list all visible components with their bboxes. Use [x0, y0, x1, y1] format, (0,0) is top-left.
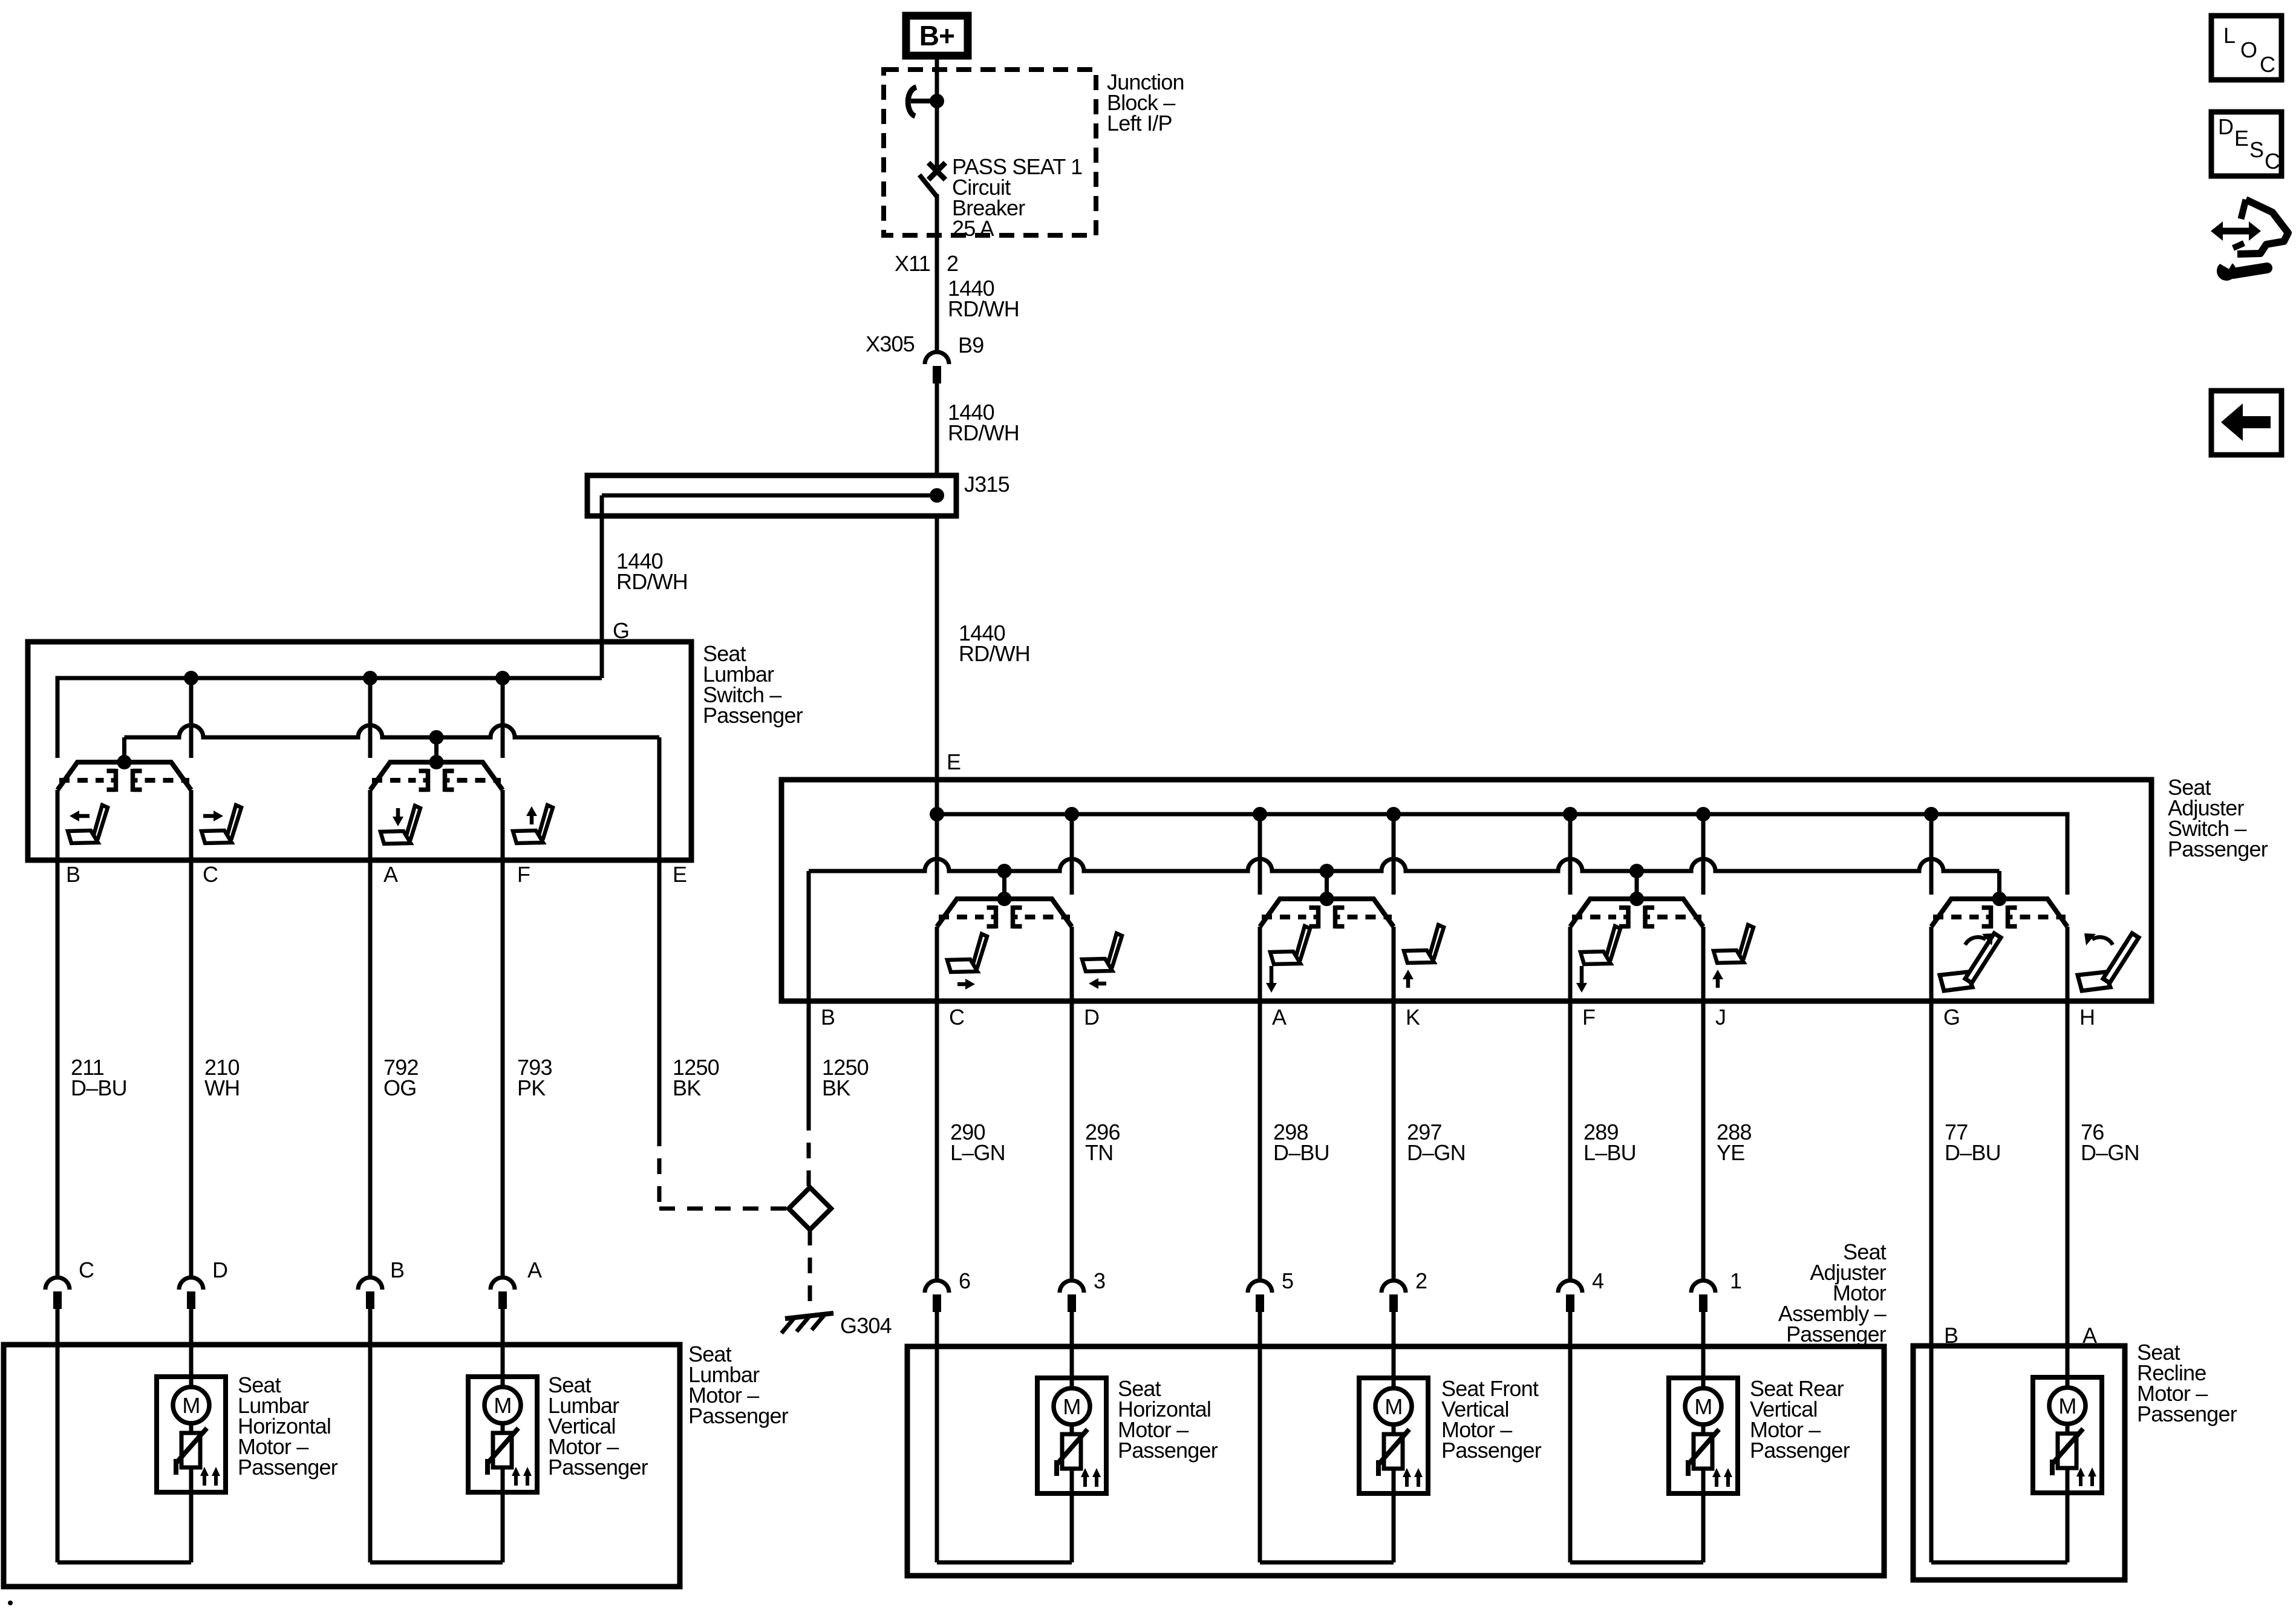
- svg-text:4: 4: [1592, 1268, 1603, 1293]
- svg-text:A: A: [1272, 1005, 1287, 1030]
- svg-text:TN: TN: [1085, 1140, 1113, 1165]
- svg-text:2: 2: [1415, 1268, 1427, 1293]
- svg-text:D–GN: D–GN: [1407, 1140, 1466, 1165]
- svg-text:A: A: [383, 862, 398, 887]
- svg-text:D: D: [212, 1258, 227, 1282]
- svg-text:D–GN: D–GN: [2081, 1140, 2139, 1165]
- svg-text:M: M: [494, 1393, 511, 1418]
- svg-text:BK: BK: [673, 1075, 701, 1100]
- svg-text:RD/WH: RD/WH: [616, 569, 688, 594]
- svg-text:PK: PK: [517, 1075, 546, 1100]
- svg-text:2: 2: [947, 251, 958, 276]
- svg-text:6: 6: [959, 1268, 970, 1293]
- svg-text:D–BU: D–BU: [71, 1075, 127, 1100]
- svg-text:Passenger: Passenger: [1750, 1438, 1850, 1463]
- svg-text:Passenger: Passenger: [1786, 1322, 1887, 1346]
- svg-text:M: M: [2058, 1394, 2076, 1418]
- svg-text:B9: B9: [958, 333, 983, 357]
- svg-text:J315: J315: [964, 472, 1009, 497]
- svg-text:B: B: [66, 862, 80, 887]
- svg-text:B: B: [1944, 1323, 1958, 1348]
- svg-text:X305: X305: [866, 331, 915, 356]
- svg-text:25 A: 25 A: [952, 216, 994, 241]
- svg-text:S: S: [2249, 137, 2263, 162]
- svg-text:X11: X11: [895, 251, 930, 276]
- svg-text:A: A: [527, 1258, 542, 1282]
- svg-text:H: H: [2079, 1005, 2095, 1030]
- svg-text:D: D: [1084, 1005, 1099, 1030]
- svg-text:M: M: [1694, 1394, 1712, 1419]
- svg-text:D–BU: D–BU: [1945, 1140, 2001, 1165]
- svg-text:M: M: [182, 1393, 200, 1418]
- svg-text:YE: YE: [1717, 1140, 1744, 1165]
- svg-text:B+: B+: [919, 20, 954, 51]
- svg-text:Left I/P: Left I/P: [1107, 111, 1172, 135]
- svg-text:C: C: [203, 862, 218, 887]
- svg-text:Passenger: Passenger: [2137, 1402, 2237, 1426]
- svg-text:1: 1: [1730, 1268, 1741, 1293]
- svg-text:Passenger: Passenger: [238, 1455, 338, 1480]
- svg-text:BK: BK: [822, 1075, 850, 1100]
- svg-text:C: C: [949, 1005, 964, 1030]
- svg-text:C: C: [2260, 52, 2275, 77]
- svg-text:L–GN: L–GN: [950, 1140, 1005, 1165]
- svg-text:RD/WH: RD/WH: [948, 296, 1019, 321]
- svg-text:E: E: [947, 749, 960, 774]
- svg-text:L: L: [2223, 23, 2235, 48]
- svg-text:5: 5: [1282, 1268, 1293, 1293]
- svg-text:O: O: [2240, 38, 2257, 62]
- svg-text:Passenger: Passenger: [703, 703, 803, 728]
- svg-text:D–BU: D–BU: [1273, 1140, 1329, 1165]
- svg-text:Passenger: Passenger: [1441, 1438, 1542, 1463]
- svg-text:C: C: [2265, 149, 2280, 174]
- svg-text:Passenger: Passenger: [1118, 1438, 1218, 1463]
- svg-text:E: E: [673, 862, 687, 887]
- svg-text:F: F: [517, 862, 530, 887]
- svg-text:F: F: [1582, 1005, 1595, 1030]
- svg-text:G: G: [1943, 1005, 1960, 1030]
- svg-text:M: M: [1063, 1394, 1080, 1419]
- svg-text:Passenger: Passenger: [688, 1403, 789, 1428]
- svg-text:K: K: [1406, 1005, 1420, 1030]
- svg-text:OG: OG: [383, 1075, 416, 1100]
- svg-text:M: M: [1384, 1394, 1402, 1419]
- svg-text:Passenger: Passenger: [548, 1455, 648, 1480]
- svg-text:B: B: [821, 1005, 835, 1030]
- svg-text:D: D: [2218, 114, 2233, 139]
- svg-text:E: E: [2234, 126, 2248, 151]
- svg-text:RD/WH: RD/WH: [959, 641, 1030, 666]
- svg-text:Passenger: Passenger: [2168, 837, 2268, 861]
- svg-text:A: A: [2082, 1323, 2097, 1348]
- svg-text:L–BU: L–BU: [1583, 1140, 1636, 1165]
- svg-text:B: B: [390, 1258, 404, 1282]
- svg-text:RD/WH: RD/WH: [948, 420, 1019, 445]
- svg-text:3: 3: [1094, 1268, 1105, 1293]
- svg-text:C: C: [79, 1258, 94, 1282]
- svg-text:WH: WH: [204, 1075, 240, 1100]
- svg-text:G304: G304: [840, 1313, 892, 1338]
- svg-text:J: J: [1715, 1005, 1726, 1030]
